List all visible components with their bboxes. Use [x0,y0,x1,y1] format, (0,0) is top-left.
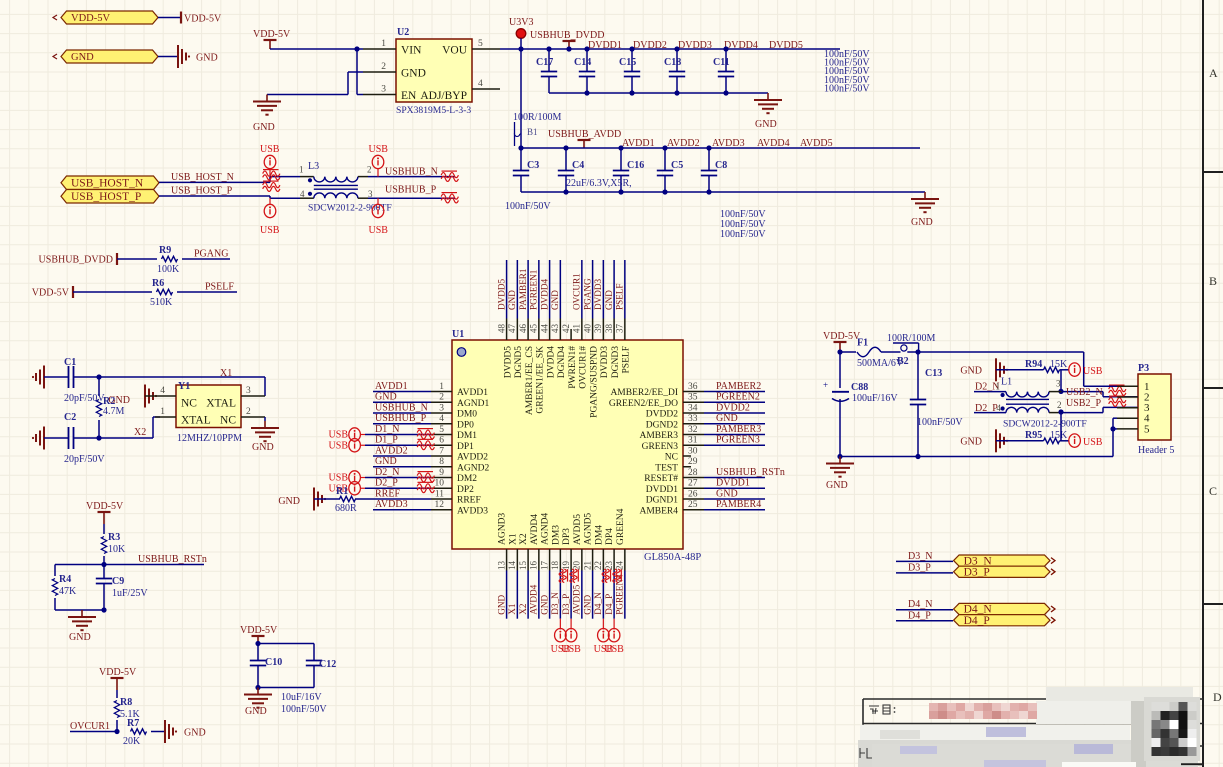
esd [417,439,434,449]
wire [624,260,626,319]
net GND [507,290,517,310]
junction [114,729,119,734]
wire [314,498,340,500]
svg-text:AGND3: AGND3 [498,513,508,545]
svg-text:GND: GND [716,488,738,499]
svg-text:USB: USB [369,144,389,155]
svg-text:USBHUB_P: USBHUB_P [385,185,437,196]
svg-text:10uF/16V: 10uF/16V [281,692,322,703]
pin 2 [241,407,265,417]
svg-text:GREEN3: GREEN3 [642,442,679,452]
svg-text:NC: NC [220,415,236,427]
svg-text:+: + [823,380,828,390]
net DVDD1 [588,40,622,51]
junction [96,435,101,440]
pin 22 [593,525,604,571]
net X2 [518,603,528,615]
wire [1060,369,1069,371]
wire [538,260,540,319]
net GND [604,290,614,310]
svg-text:AVDD5: AVDD5 [573,514,583,545]
svg-text:9: 9 [439,468,444,478]
svg-text:100nF/50V: 100nF/50V [917,417,963,428]
svg-text:3: 3 [439,403,444,413]
pin 5 [431,425,477,441]
esd [559,569,567,583]
wire DVDD gnd rail [549,92,768,94]
pin 37 [615,319,632,374]
svg-text:PAMBER2: PAMBER2 [716,381,761,392]
pin 14 [507,533,518,570]
capacitor C13 [910,352,964,457]
svg-text:USB: USB [260,225,280,236]
svg-text:USB2_N: USB2_N [1066,387,1103,398]
wire VIN [270,48,363,50]
resistor R6 [150,278,173,308]
junction [255,685,260,690]
svg-text:VDD-5V: VDD-5V [71,13,110,24]
pin 31 [642,436,704,452]
power VDD-5V [32,286,73,299]
svg-text:NC: NC [665,453,678,463]
net PAMBER2 [716,381,761,392]
net DVDD2 [716,402,750,413]
svg-text:100R/100M: 100R/100M [513,112,561,123]
wire [896,620,953,622]
net D4_N [593,592,603,615]
net DVDD3 [678,40,712,51]
net DVDD1 [716,478,750,489]
wire [704,412,765,414]
wire [549,260,551,319]
svg-text:AVDD4: AVDD4 [757,138,790,149]
pin 26 [646,489,704,505]
svg-text:USB: USB [1083,366,1103,377]
svg-text:2: 2 [1057,400,1062,410]
svg-text:DP1: DP1 [457,442,474,452]
svg-text:AVDD2: AVDD2 [667,138,700,149]
wire [624,571,626,619]
svg-text:D3_P: D3_P [964,567,990,579]
wire gnd rail [840,456,1113,458]
svg-text:D3_N: D3_N [964,555,993,567]
wire [549,571,551,619]
pin 17 [539,513,550,571]
svg-text:GND: GND [550,290,560,310]
port USB [329,471,365,484]
svg-text:35: 35 [688,393,698,403]
net USB2_P [1066,398,1101,409]
junction [1058,389,1063,394]
svg-text:GND: GND [108,395,130,406]
svg-text:USBHUB_P: USBHUB_P [375,413,427,424]
value 100nF/50V [281,704,327,715]
svg-text:GND: GND [755,119,777,130]
ground GND [826,457,854,492]
wire [117,258,157,260]
net USBHUB_N [375,402,428,413]
net DVDD5 [769,40,803,51]
pin 23 [604,528,615,571]
pin 4 [1117,413,1150,425]
value 100nF/50V [824,66,870,77]
pin 4 [145,386,176,396]
svg-text:EN: EN [401,90,417,102]
svg-text:D4_N: D4_N [908,599,932,610]
svg-text:USB_HOST_P: USB_HOST_P [71,191,141,203]
svg-text:5: 5 [478,39,483,49]
svg-text:GND: GND [539,594,549,614]
pin 28 [644,468,704,484]
svg-text:680R: 680R [335,503,357,514]
svg-text:DM4: DM4 [594,525,604,545]
net GND [496,594,506,614]
svg-text:DM3: DM3 [551,525,561,545]
net D2_N [975,382,999,393]
pin 9 [431,468,477,484]
svg-text:R7: R7 [127,718,139,729]
wire [1060,370,1062,392]
net OVCUR1 [70,721,110,732]
wire [1084,385,1117,387]
svg-text:VDD-5V: VDD-5V [823,331,861,342]
pin 11 [431,489,481,505]
svg-text:DM1: DM1 [457,431,477,441]
net D2_P [375,478,398,489]
wire [73,291,152,293]
capacitor C11 [713,49,734,93]
svg-text:GL850A-48P: GL850A-48P [644,552,701,563]
svg-text:GND: GND [911,217,933,228]
svg-text:DP0: DP0 [457,420,474,430]
net AVDD4 [757,138,790,149]
net AVDD3 [375,499,408,510]
svg-text:DVDD2: DVDD2 [633,40,667,51]
net PSELF [205,282,234,293]
port D4_N [954,603,1055,615]
svg-text:1uF/25V: 1uF/25V [112,588,148,599]
svg-text:510K: 510K [150,297,173,308]
net AVDD2 [375,445,408,456]
svg-text:GND: GND [496,594,506,614]
svg-text:7: 7 [439,446,444,456]
pin 35 [609,393,704,409]
wire [1060,413,1062,441]
svg-text:10K: 10K [108,544,126,555]
wire OVCUR1 [70,731,117,733]
svg-text:16: 16 [529,561,539,571]
capacitor C16 [613,148,644,192]
svg-text:ADJ/BYP: ADJ/BYP [420,90,467,102]
wire [506,571,508,619]
port USB [369,144,389,177]
svg-text:R95: R95 [1025,430,1042,441]
svg-text:1: 1 [381,39,386,49]
net D2_N [375,467,399,478]
svg-text:SDCW2012-2-900TF: SDCW2012-2-900TF [1003,419,1087,430]
esd [441,193,458,203]
net D4_P [908,611,931,622]
capacitor C15 [619,49,640,93]
net PGREEN2 [716,392,760,403]
power VDD-5V [823,331,861,352]
pin 19 [561,528,572,571]
svg-text:DVDD2: DVDD2 [716,402,750,413]
svg-text:NC: NC [181,398,197,410]
svg-text:DVDD3: DVDD3 [593,278,603,310]
wire [151,731,164,733]
junction [915,349,920,354]
pin 48 [496,319,513,379]
svg-text:AVDD3: AVDD3 [712,138,745,149]
svg-text:C14: C14 [574,57,591,68]
svg-text:D3_P: D3_P [561,594,571,615]
svg-text:USB: USB [604,644,624,655]
wire [896,572,953,574]
power VDD-5V [181,12,222,25]
junction [518,145,523,150]
svg-text:PWREN1#: PWREN1# [568,346,578,389]
svg-text:DVDD4: DVDD4 [539,278,549,310]
censor blob gray [858,701,1198,767]
wire [373,455,431,457]
svg-text:14: 14 [507,561,517,571]
wire [365,487,431,489]
wire [365,444,431,446]
svg-text:D4_N: D4_N [593,592,603,615]
svg-text:C15: C15 [619,57,636,68]
esd [613,569,621,583]
port USB_HOST_N [61,176,159,190]
svg-text:X1: X1 [508,533,518,545]
svg-text:C18: C18 [664,57,681,68]
wire [592,260,594,319]
net OVCUR1 [572,273,582,310]
power USBHUB_DVDD [530,30,604,49]
svg-text:GND: GND [375,392,397,403]
port D4_P [954,615,1055,627]
svg-text:RREF: RREF [457,496,481,506]
svg-text:AVDD1: AVDD1 [457,388,488,398]
svg-text:R6: R6 [152,278,164,289]
svg-text:OVCUR1: OVCUR1 [70,721,110,732]
svg-text:SPX3819M5-L-3-3: SPX3819M5-L-3-3 [396,105,471,116]
capacitor C12 [306,648,336,688]
net USBHUB_RSTn [138,554,207,565]
svg-text:8: 8 [439,457,444,467]
svg-text:20pF/50V: 20pF/50V [64,454,105,465]
net DVDD4 [724,40,758,51]
junction [837,454,842,459]
svg-text:13: 13 [496,561,506,571]
svg-text:USB_HOST_N: USB_HOST_N [71,177,144,189]
net AVDD5 [572,584,582,614]
svg-text:34: 34 [688,403,698,413]
svg-text:GND: GND [184,728,206,739]
svg-text:PGREEN2: PGREEN2 [716,392,760,403]
wire [527,571,529,619]
svg-text:DGND3: DGND3 [611,346,621,378]
op-amp U2 [396,27,472,116]
fuse F1 [857,338,904,370]
svg-text:100nF/50V: 100nF/50V [824,83,870,94]
svg-text:41: 41 [572,324,582,333]
pin 36 [610,382,704,398]
resistor R9 [157,245,180,275]
svg-text:AGND1: AGND1 [457,399,489,409]
pin 8 [431,457,489,473]
net AVDD3 [712,138,745,149]
pin 2 [431,393,489,409]
svg-text:C1: C1 [64,357,76,368]
power U3V3 [509,17,533,49]
svg-text:AMBER2/EE_DI: AMBER2/EE_DI [610,388,678,398]
svg-text:25: 25 [688,500,698,510]
svg-text:18: 18 [550,561,560,571]
net D3_P [908,563,931,574]
svg-text:DGND4: DGND4 [557,346,567,378]
pin 39 [593,319,610,379]
capacitor C14 [574,49,595,93]
inductor L3 [299,161,392,213]
junction [563,189,568,194]
wire [264,417,266,421]
svg-text:C2: C2 [64,412,76,423]
svg-text:RREF: RREF [375,488,400,499]
svg-text:DVDD1: DVDD1 [646,485,678,495]
pin 21 [582,513,593,571]
net D3_N [550,592,560,615]
svg-text:X2: X2 [519,533,529,545]
resistor R3 [101,524,126,565]
svg-text:17: 17 [539,561,549,571]
svg-text:1: 1 [299,164,304,174]
value 10uF/16V [281,692,322,703]
net GND [550,290,560,310]
svg-text:GREEN4: GREEN4 [616,508,626,545]
ground GND [178,45,218,68]
net D1_N [375,424,399,435]
net D2_P [975,403,998,414]
capacitor C5 [657,148,683,192]
svg-text:XTAL: XTAL [181,415,211,427]
svg-text:3: 3 [381,85,386,95]
pin 6 [431,436,474,452]
net X1 [220,368,232,379]
net AVDD4 [529,584,539,614]
pin 3 [241,386,265,396]
svg-text:AVDD5: AVDD5 [800,138,833,149]
svg-text:USB_HOST_N: USB_HOST_N [171,172,234,183]
net DVDD4 [539,278,549,310]
wire [506,260,508,319]
svg-text:USB_HOST_P: USB_HOST_P [171,186,233,197]
pin 47 [507,319,524,379]
svg-text:AVDD5: AVDD5 [572,584,582,614]
svg-text:DP4: DP4 [605,528,615,545]
svg-text:DVDD1: DVDD1 [588,40,622,51]
svg-text:GND: GND [604,290,614,310]
pin 4 [431,414,474,430]
wire [373,423,431,425]
svg-text:R4: R4 [59,574,71,585]
title label [869,705,895,714]
svg-text:24: 24 [615,561,625,571]
svg-text:100R/100M: 100R/100M [887,333,935,344]
wire USBHUB_RSTn [104,564,204,566]
svg-text:AMBER3: AMBER3 [639,431,678,441]
esd [417,429,434,439]
net RREF [375,488,400,499]
svg-text:48: 48 [496,323,506,333]
svg-text:D3_N: D3_N [908,551,932,562]
ic U1 body [452,329,701,563]
svg-text:32: 32 [688,425,698,435]
svg-text:100nF/50V: 100nF/50V [505,201,551,212]
svg-text:GND: GND [278,496,300,507]
svg-text:VDD-5V: VDD-5V [86,501,124,512]
resistor R7 [123,718,147,747]
net GND [716,488,738,499]
svg-text:15K: 15K [1050,359,1068,370]
svg-text:X2: X2 [518,603,528,615]
svg-text:47K: 47K [59,586,77,597]
svg-text:AVDD2: AVDD2 [457,453,488,463]
net D1_P [375,435,398,446]
junction [837,349,842,354]
svg-text:L1: L1 [1001,377,1012,388]
svg-text:5: 5 [439,425,444,435]
svg-text:USBHUB_N: USBHUB_N [375,402,428,413]
svg-text:AVDD4: AVDD4 [529,584,539,614]
esd [441,171,458,181]
svg-text:22uF/6.3V,X5R,: 22uF/6.3V,X5R, [566,178,632,189]
svg-text:USB: USB [329,473,349,484]
qr code [1144,697,1200,761]
svg-text:3: 3 [1056,379,1061,389]
wire [373,412,431,414]
svg-text:47: 47 [507,324,517,334]
inductor B2 [887,333,935,367]
port USB [260,144,280,177]
svg-text:2: 2 [439,393,444,403]
value 100nF/50V [824,49,870,60]
wire [581,571,583,619]
wire [896,560,953,562]
wire [704,401,765,403]
port USB [1069,434,1103,448]
svg-text:X2: X2 [134,427,146,438]
ground GND [165,720,206,743]
svg-text:1: 1 [996,382,1001,392]
junction [584,46,589,51]
wire [881,351,919,353]
wire [516,571,518,619]
wire [258,644,314,649]
port USB [329,428,365,441]
wire [704,444,765,446]
svg-text:C4: C4 [572,160,584,171]
resistor R1 [335,486,357,514]
svg-text:45: 45 [529,324,539,334]
svg-text:D4_P: D4_P [908,611,931,622]
svg-text:15K: 15K [1050,430,1068,441]
net GND [375,456,397,467]
svg-text:4: 4 [997,403,1002,413]
svg-text:DVDD4: DVDD4 [724,40,758,51]
wire AVDD gnd rail [521,191,925,193]
wire X1 [99,377,265,396]
